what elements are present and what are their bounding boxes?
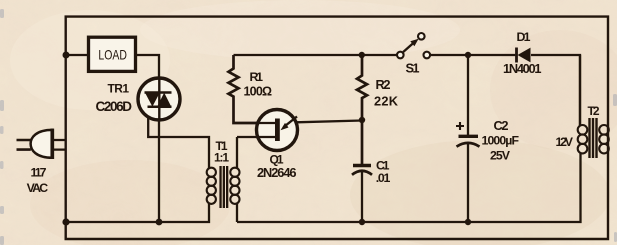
svg-text:25V: 25V <box>490 148 511 162</box>
svg-text:C206D: C206D <box>96 99 133 114</box>
svg-text:D1: D1 <box>517 30 531 44</box>
svg-text:1N4001: 1N4001 <box>503 61 542 76</box>
svg-text:2N2646: 2N2646 <box>257 165 297 180</box>
svg-text:.01: .01 <box>376 171 391 185</box>
svg-text:12V: 12V <box>556 135 574 149</box>
svg-text:T2: T2 <box>588 104 600 118</box>
svg-text:TR1: TR1 <box>108 82 130 96</box>
svg-text:LOAD: LOAD <box>98 46 127 62</box>
svg-text:100Ω: 100Ω <box>244 85 273 99</box>
svg-text:S1: S1 <box>406 61 420 76</box>
svg-text:1:1: 1:1 <box>214 151 229 165</box>
svg-text:VAC: VAC <box>27 181 49 195</box>
svg-text:117: 117 <box>31 166 47 180</box>
svg-text:R1: R1 <box>250 70 264 84</box>
svg-text:R2: R2 <box>376 77 391 92</box>
svg-text:C2: C2 <box>494 118 509 133</box>
svg-text:1000µF: 1000µF <box>482 134 520 148</box>
svg-text:22K: 22K <box>374 94 399 109</box>
